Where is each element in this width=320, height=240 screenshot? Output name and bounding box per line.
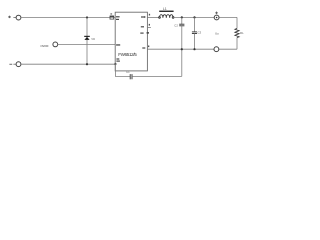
node junction C2 bottom (181, 48, 183, 50)
wire coil to corner (174, 16, 237, 18)
wire diode branch vertical (86, 18, 88, 65)
inductor L1 core bar (159, 11, 173, 12)
svg-text:ON/OFF: ON/OFF (40, 44, 49, 48)
node junction diode top (86, 16, 88, 18)
resistor RL (236, 17, 238, 28)
IC U1 FW6512/5 (115, 12, 147, 71)
node junction at IC gnd (114, 63, 116, 65)
capacitor C1 (129, 74, 131, 79)
pin stub right mid (147, 26, 151, 28)
svg-text:RL: RL (240, 31, 244, 35)
svg-text:C3: C3 (198, 31, 202, 35)
pin label OUT right with arrow (141, 16, 144, 17)
pin number 2 above wire (149, 14, 150, 16)
pin row 7 right (140, 33, 143, 34)
label + output (215, 11, 218, 14)
node junction C2 top (181, 16, 183, 18)
wire ON/OFF to IC (58, 43, 115, 45)
pin label FB inner (142, 47, 145, 48)
wire FB rail (147, 48, 237, 50)
pin row 6 right (141, 26, 144, 27)
terminal input plus (13, 17, 16, 19)
wire bottom loop left (115, 64, 129, 76)
terminal ON/OFF (53, 42, 58, 47)
node VIN+ polarity label (8, 16, 11, 19)
node junction C3 bottom (193, 48, 195, 50)
svg-text:FW6512/5: FW6512/5 (118, 52, 137, 57)
wire IC out to coil (147, 16, 159, 18)
svg-text:L1: L1 (163, 7, 167, 11)
capacitor C3 (194, 17, 196, 32)
svg-text:C1: C1 (126, 70, 130, 74)
pin label rows GND (116, 58, 119, 59)
capacitor C2 (181, 17, 183, 24)
wire bottom loop right (132, 75, 182, 77)
node junction diode bottom (86, 63, 88, 65)
pin label rows VIN (116, 16, 120, 17)
terminal output minus (214, 47, 219, 52)
svg-text:Uo: Uo (215, 31, 219, 35)
pin 1 pad symbol (110, 16, 114, 19)
node GND- polarity label (9, 63, 12, 66)
node junction C3 top (193, 16, 195, 18)
svg-text:VD: VD (91, 37, 95, 41)
wire bottom-left rail (21, 63, 116, 65)
diode VD (84, 36, 90, 37)
inductor L1 windings (160, 15, 174, 18)
svg-text:C2: C2 (174, 23, 178, 27)
wire top rail input (21, 17, 115, 19)
terminal input minus (13, 63, 16, 65)
terminal output plus (214, 15, 219, 20)
pin label ON/OFF inner (116, 44, 120, 45)
